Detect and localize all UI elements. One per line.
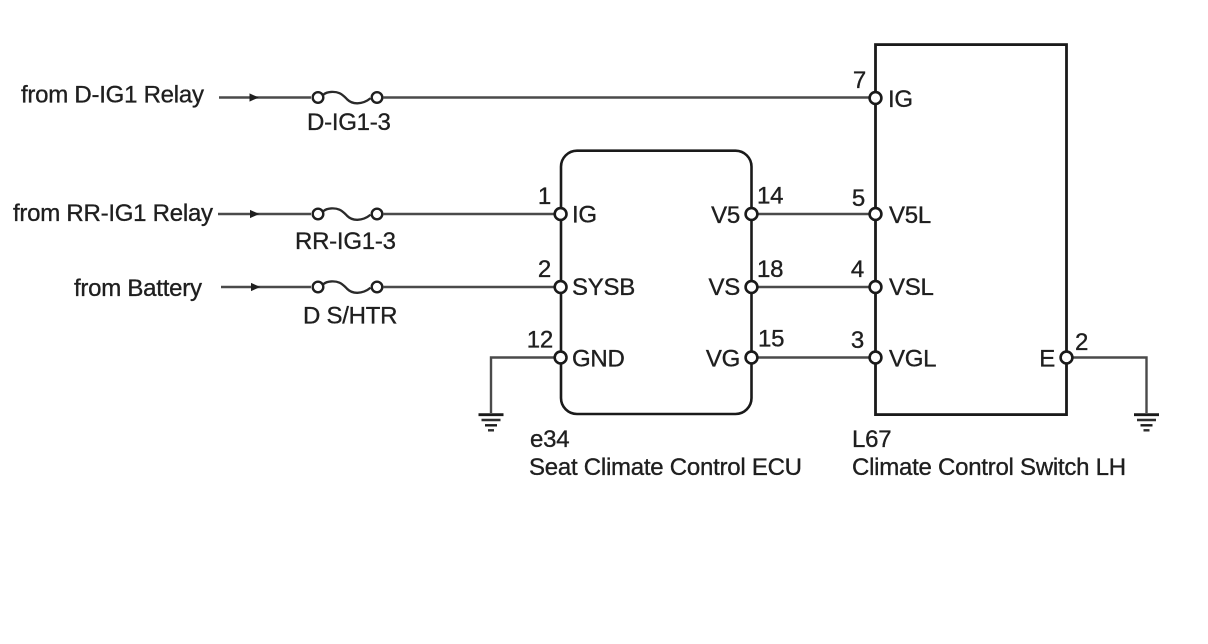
pin 12 GND (ECU) bbox=[527, 327, 625, 373]
svg-text:1: 1 bbox=[538, 183, 551, 210]
label from RR-IG1 Relay bbox=[13, 200, 213, 227]
label from Battery bbox=[74, 275, 202, 302]
fuse D S/HTR bbox=[313, 281, 383, 292]
wire row2 arrow feed bbox=[218, 210, 311, 218]
pin 4 VSL (switch) bbox=[851, 256, 934, 301]
node Climate Control Switch LH label bbox=[852, 454, 1126, 481]
wire row2 to ECU pin 1 bbox=[383, 213, 555, 215]
node L67 label bbox=[852, 426, 891, 453]
svg-text:SYSB: SYSB bbox=[572, 274, 635, 301]
svg-text:E: E bbox=[1039, 346, 1055, 373]
svg-text:RR-IG1-3: RR-IG1-3 bbox=[295, 228, 396, 255]
svg-text:V5: V5 bbox=[711, 202, 740, 229]
wire row3 arrow feed bbox=[221, 283, 311, 291]
wire row3 to ECU pin 2 bbox=[383, 286, 555, 288]
ECU box e34 bbox=[561, 151, 752, 414]
svg-text:4: 4 bbox=[851, 256, 864, 283]
label from D-IG1 Relay bbox=[21, 82, 204, 109]
svg-text:IG: IG bbox=[572, 202, 597, 229]
svg-text:L67: L67 bbox=[852, 426, 891, 453]
svg-text:12: 12 bbox=[527, 327, 553, 354]
pin 1 IG (ECU) bbox=[538, 183, 597, 229]
wire V5 to V5L bbox=[758, 213, 869, 215]
svg-text:e34: e34 bbox=[530, 426, 569, 453]
pin 18 VS (ECU) bbox=[708, 256, 783, 301]
svg-text:from D-IG1 Relay: from D-IG1 Relay bbox=[21, 82, 204, 109]
svg-text:VG: VG bbox=[706, 346, 740, 373]
pin 2 E (switch) bbox=[1039, 329, 1088, 373]
svg-text:3: 3 bbox=[851, 327, 864, 354]
value label RR-IG1-3 bbox=[295, 228, 396, 255]
svg-text:7: 7 bbox=[853, 67, 866, 94]
svg-text:Climate Control Switch LH: Climate Control Switch LH bbox=[852, 454, 1126, 481]
pin 3 VGL (switch) bbox=[851, 327, 936, 373]
pin 7 IG (switch) bbox=[853, 67, 913, 113]
svg-text:from RR-IG1 Relay: from RR-IG1 Relay bbox=[13, 200, 213, 227]
wire VS to VSL bbox=[758, 286, 869, 288]
svg-text:18: 18 bbox=[757, 256, 783, 283]
svg-text:Seat Climate Control ECU: Seat Climate Control ECU bbox=[529, 454, 802, 481]
wire row1 to switch pin 7 bbox=[383, 96, 869, 98]
svg-text:V5L: V5L bbox=[889, 202, 931, 229]
wire VG to VGL bbox=[758, 356, 869, 358]
wire row1 arrow feed bbox=[219, 93, 311, 101]
svg-text:14: 14 bbox=[757, 183, 783, 210]
svg-text:2: 2 bbox=[538, 256, 551, 283]
node Seat Climate Control ECU label bbox=[529, 454, 802, 481]
fuse RR-IG1-3 bbox=[313, 208, 383, 219]
wire E to ground bbox=[1073, 358, 1147, 414]
value label D-IG1-3 bbox=[307, 109, 391, 136]
svg-text:5: 5 bbox=[852, 185, 865, 212]
svg-text:VGL: VGL bbox=[889, 346, 936, 373]
svg-text:2: 2 bbox=[1075, 329, 1088, 356]
pin 14 V5 (ECU) bbox=[711, 183, 783, 230]
fuse D-IG1-3 bbox=[313, 92, 383, 103]
svg-text:GND: GND bbox=[572, 346, 625, 373]
svg-text:D-IG1-3: D-IG1-3 bbox=[307, 109, 391, 136]
ground E bbox=[1134, 415, 1159, 431]
node e34 label bbox=[530, 426, 569, 453]
svg-text:from Battery: from Battery bbox=[74, 275, 202, 302]
svg-text:VSL: VSL bbox=[889, 274, 934, 301]
pin 15 VG (ECU) bbox=[706, 326, 784, 373]
svg-text:VS: VS bbox=[708, 274, 740, 301]
svg-text:IG: IG bbox=[888, 86, 913, 113]
wire GND to ground bbox=[491, 358, 556, 414]
svg-text:15: 15 bbox=[758, 326, 784, 353]
pin 5 V5L (switch) bbox=[852, 185, 931, 229]
ground GND bbox=[479, 415, 504, 431]
value label D S/HTR bbox=[303, 303, 397, 330]
switch box L67 bbox=[876, 45, 1067, 415]
svg-text:D S/HTR: D S/HTR bbox=[303, 303, 397, 330]
pin 2 SYSB (ECU) bbox=[538, 256, 635, 301]
